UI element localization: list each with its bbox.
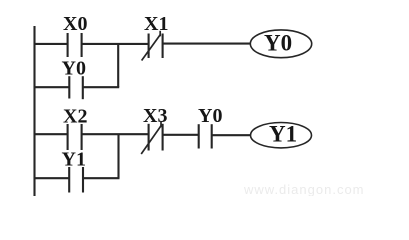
svg-text:www.diangon.com: www.diangon.com [243, 182, 365, 196]
branch2 wire: rail to Y1 contact [34, 177, 70, 179]
svg-text:Y1: Y1 [269, 122, 297, 147]
coil Y1 [251, 123, 312, 148]
contact X1 (normally closed) [142, 31, 163, 61]
branch riser rung2 [117, 134, 119, 178]
branch1 wire: rail to Y0 contact [34, 86, 69, 88]
contact Y0 (series, rung2) [199, 124, 212, 148]
branch2 wire: Y1 contact to riser [83, 177, 119, 179]
svg-text:X2: X2 [63, 106, 87, 128]
contact X3 (normally closed) [141, 122, 162, 154]
svg-text:Y0: Y0 [198, 105, 222, 127]
wire rung1: rail to X0 [34, 43, 68, 45]
contact Y0 (parallel) [69, 76, 83, 99]
contact Y1 (parallel) [69, 167, 83, 193]
svg-text:Y1: Y1 [62, 149, 86, 171]
wire rung2: X3 to Y0 contact [163, 134, 198, 136]
contact X0 [68, 33, 82, 57]
svg-text:Y0: Y0 [264, 30, 292, 55]
svg-text:X3: X3 [143, 105, 167, 127]
coil Y0 [250, 30, 311, 58]
wire rung2: X2 to X3 [82, 133, 148, 135]
svg-text:Y0: Y0 [62, 58, 86, 80]
contact X2 [68, 124, 82, 150]
wire rung2: Y0 contact to coil Y1 [212, 134, 251, 136]
wire rung1: X1 to coil Y0 [163, 43, 251, 45]
svg-text:X1: X1 [144, 13, 168, 35]
wire rung1: X0 to X1 [82, 43, 148, 45]
branch riser rung1 [117, 44, 119, 87]
branch1 wire: Y0 contact to riser [83, 86, 119, 88]
svg-text:X0: X0 [63, 13, 87, 35]
wire rung2: rail to X2 [34, 133, 68, 135]
left power rail [33, 26, 35, 196]
